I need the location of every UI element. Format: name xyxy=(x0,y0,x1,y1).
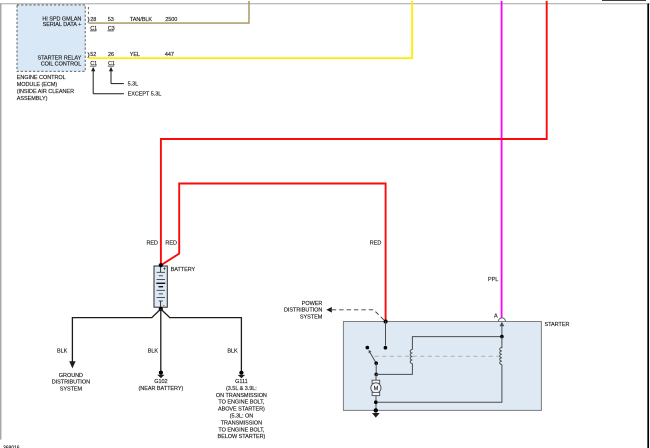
svg-text:A: A xyxy=(494,313,498,319)
svg-text:RED: RED xyxy=(147,241,159,247)
node switch pivot xyxy=(374,361,378,365)
node junction pull-in coil xyxy=(374,373,378,377)
label POWER DISTRIBUTION SYSTEM xyxy=(284,301,323,321)
label STARTER RELAY COIL CONTROL xyxy=(37,56,81,68)
node A junction xyxy=(500,335,504,339)
node starter case ground xyxy=(374,408,378,412)
connector arc row 1 xyxy=(88,17,89,23)
node switch contact right xyxy=(384,346,388,350)
svg-text:+: + xyxy=(163,266,166,272)
svg-text:(INSIDE AIR CLEANER: (INSIDE AIR CLEANER xyxy=(17,89,74,95)
svg-text:BLK: BLK xyxy=(227,349,238,355)
connector C3 row1 xyxy=(107,26,114,32)
wire terminal A arrow up xyxy=(501,325,503,337)
mechanical link dashed xyxy=(375,355,501,357)
node battery negative xyxy=(159,307,163,311)
label GROUND DISTRIBUTION SYSTEM xyxy=(52,373,90,393)
svg-text:ASSEMBLY): ASSEMBLY) xyxy=(17,96,48,102)
inductor pull-in winding xyxy=(410,350,412,364)
dashed reference line to power distribution xyxy=(332,310,385,321)
svg-text:MODULE (ECM): MODULE (ECM) xyxy=(17,82,58,88)
connector dashed face C1 xyxy=(87,7,89,15)
arrow to ground distribution system xyxy=(69,361,75,368)
switch solenoid contact blade xyxy=(370,352,377,364)
wire TAN/BLK 2500 xyxy=(89,1,250,23)
label ENGINE CONTROL MODULE (ECM) xyxy=(17,75,74,102)
connector C1 row2 left xyxy=(90,61,97,67)
wire hold-in coil to motor ground side xyxy=(376,365,502,403)
ground starter case xyxy=(372,413,380,418)
svg-text:5.3L: 5.3L xyxy=(128,82,139,88)
svg-text:M: M xyxy=(374,386,379,392)
connector arc row 2 xyxy=(88,52,89,58)
starter STARTER box xyxy=(343,322,541,411)
wire PPL to starter terminal A xyxy=(501,1,503,318)
svg-text:447: 447 xyxy=(165,52,174,58)
svg-text:TRANSMISSION: TRANSMISSION xyxy=(221,420,262,426)
node switch contact left xyxy=(366,346,370,350)
svg-text:DISTRIBUTION: DISTRIBUTION xyxy=(52,380,90,386)
svg-text:ON TRANSMISSION: ON TRANSMISSION xyxy=(216,393,267,399)
svg-text:DISTRIBUTION: DISTRIBUTION xyxy=(284,308,322,314)
svg-text:SYSTEM: SYSTEM xyxy=(60,387,83,393)
svg-text:ENGINE CONTROL: ENGINE CONTROL xyxy=(17,75,66,81)
svg-text:53: 53 xyxy=(108,17,114,23)
svg-text:(3.5L & 3.9L:: (3.5L & 3.9L: xyxy=(226,386,257,392)
svg-text:TO ENGINE BOLT,: TO ENGINE BOLT, xyxy=(218,400,264,406)
arrow to power distribution system xyxy=(326,307,332,313)
wire RED battery to top feed xyxy=(161,1,547,265)
ground G102 xyxy=(139,371,184,392)
svg-text:EXCEPT 5.3L: EXCEPT 5.3L xyxy=(128,92,162,98)
page right border xyxy=(647,4,649,448)
terminal A arc xyxy=(498,318,505,321)
svg-text:SERIAL DATA +: SERIAL DATA + xyxy=(43,22,82,28)
callout arrow EXCEPT 5.3L xyxy=(91,67,161,98)
inductor hold-in winding xyxy=(500,337,502,365)
connector C1 row2 right xyxy=(108,61,115,67)
wire junction to pull-in coil bottom xyxy=(376,364,412,375)
node motor ground junction xyxy=(374,400,378,404)
wire switch pivot to junction xyxy=(375,363,377,374)
svg-text:ABOVE STARTER): ABOVE STARTER) xyxy=(218,407,265,413)
svg-text:RED: RED xyxy=(165,241,177,247)
svg-text:BLK: BLK xyxy=(57,349,68,355)
wire RED battery to starter solenoid xyxy=(161,184,386,322)
svg-text:COIL CONTROL: COIL CONTROL xyxy=(41,61,82,67)
svg-text:BATTERY: BATTERY xyxy=(171,267,196,273)
page top border xyxy=(0,3,650,5)
svg-text:G111: G111 xyxy=(235,379,247,385)
wire pull-in coil top to node A xyxy=(412,337,502,350)
ground G111 xyxy=(216,371,267,441)
svg-text:BLK: BLK xyxy=(148,349,159,355)
svg-text:YEL: YEL xyxy=(130,52,140,58)
svg-text:(NEAR BATTERY): (NEAR BATTERY) xyxy=(139,386,184,392)
svg-text:STARTER: STARTER xyxy=(545,322,570,328)
node battery positive xyxy=(159,263,163,267)
wire feed to switch contact xyxy=(385,322,387,346)
svg-text:SYSTEM: SYSTEM xyxy=(300,314,323,320)
node B+ feed at starter xyxy=(384,319,388,323)
label HI SPD GMLAN SERIAL DATA + xyxy=(42,16,81,28)
motor M xyxy=(371,374,381,410)
svg-text:TO ENGINE BOLT,: TO ENGINE BOLT, xyxy=(218,427,264,433)
wire BLK to G102 xyxy=(160,309,162,371)
op-amp ECM module box xyxy=(17,5,85,71)
svg-text:RED: RED xyxy=(370,241,382,247)
wire YEL 447 xyxy=(89,1,413,58)
connector C1 row1 xyxy=(90,26,97,32)
svg-text:PPL: PPL xyxy=(488,277,498,283)
svg-text:TAN/BLK: TAN/BLK xyxy=(130,17,153,23)
svg-text:POWER: POWER xyxy=(302,301,323,307)
svg-text:(5.3L: ON: (5.3L: ON xyxy=(230,414,254,420)
battery BATTERY xyxy=(154,266,167,309)
callout arrow 5.3L xyxy=(109,67,138,88)
svg-text:52: 52 xyxy=(90,52,96,58)
page left border xyxy=(0,4,2,440)
svg-text:GROUND: GROUND xyxy=(59,373,83,379)
svg-text:2500: 2500 xyxy=(165,17,177,23)
svg-text:28: 28 xyxy=(90,17,96,23)
wire BLK to G111 xyxy=(161,309,242,371)
svg-text:G102: G102 xyxy=(154,379,167,385)
svg-text:26: 26 xyxy=(108,52,114,58)
wire BLK to ground distribution xyxy=(72,309,160,362)
svg-text:BELOW STARTER): BELOW STARTER) xyxy=(217,434,265,440)
